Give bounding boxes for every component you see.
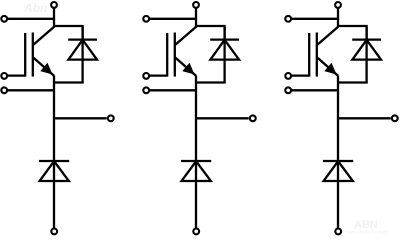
svg-text:www.abnsemi.com: www.abnsemi.com: [345, 230, 387, 236]
svg-text:Abn: Abn: [23, 1, 47, 15]
